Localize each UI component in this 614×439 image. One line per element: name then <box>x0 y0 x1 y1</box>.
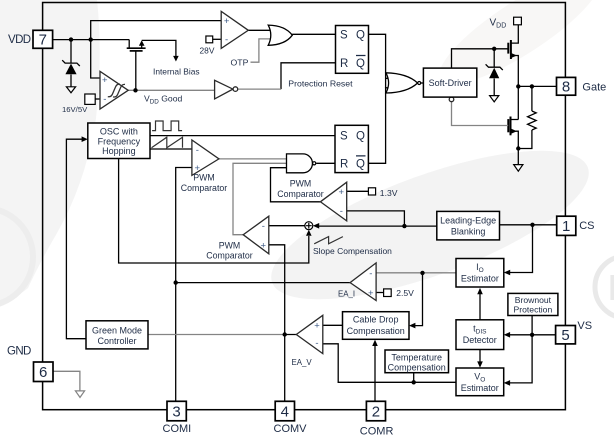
svg-text:-: - <box>262 221 265 232</box>
svg-text:VS: VS <box>577 320 592 332</box>
svg-text:3: 3 <box>172 403 180 420</box>
svg-text:1.3V: 1.3V <box>380 188 398 198</box>
svg-text:Gate: Gate <box>582 81 606 93</box>
svg-text:+: + <box>195 163 201 174</box>
svg-text:Q: Q <box>356 58 365 70</box>
svg-text:PWM: PWM <box>219 240 241 250</box>
svg-text:Leading-Edge: Leading-Edge <box>440 216 496 226</box>
svg-text:Estimator: Estimator <box>461 274 499 284</box>
svg-text:+: + <box>314 320 320 331</box>
svg-text:6: 6 <box>39 364 47 381</box>
svg-text:4: 4 <box>281 403 289 420</box>
svg-text:2: 2 <box>372 403 380 420</box>
svg-text:R: R <box>608 267 614 308</box>
svg-text:Internal Bias: Internal Bias <box>153 67 200 77</box>
svg-text:VDD: VDD <box>8 34 31 46</box>
svg-text:Comparator: Comparator <box>181 183 228 193</box>
svg-text:Green Mode: Green Mode <box>92 326 142 336</box>
svg-text:16V/5V: 16V/5V <box>62 105 88 114</box>
svg-text:Cable Drop: Cable Drop <box>353 314 399 324</box>
svg-text:+: + <box>224 16 230 27</box>
svg-text:8: 8 <box>562 79 570 96</box>
svg-text:PWM: PWM <box>193 173 215 183</box>
svg-text:-: - <box>196 145 199 156</box>
svg-text:+: + <box>339 187 345 198</box>
svg-text:-: - <box>103 94 106 105</box>
svg-text:-: - <box>315 338 318 349</box>
svg-text:+: + <box>368 288 374 299</box>
svg-text:GND: GND <box>7 345 31 357</box>
svg-text:Q: Q <box>356 158 365 170</box>
svg-text:-: - <box>369 268 372 279</box>
svg-text:CS: CS <box>579 220 594 232</box>
svg-text:COMV: COMV <box>274 423 308 435</box>
svg-text:EA_V: EA_V <box>292 358 313 367</box>
svg-text:Hopping: Hopping <box>102 146 136 156</box>
svg-text:Comparator: Comparator <box>206 250 253 260</box>
svg-text:Protection: Protection <box>514 305 553 315</box>
svg-text:+: + <box>261 240 267 251</box>
svg-text:COMR: COMR <box>360 426 394 438</box>
svg-text:Detector: Detector <box>463 335 497 345</box>
svg-text:R: R <box>340 58 348 70</box>
svg-text:PWM: PWM <box>290 179 312 189</box>
svg-text:Controller: Controller <box>97 336 136 346</box>
svg-text:+: + <box>102 75 108 86</box>
svg-text:Temperature: Temperature <box>391 352 442 362</box>
svg-text:Slope Compensation: Slope Compensation <box>313 246 392 256</box>
svg-text:-: - <box>340 206 343 217</box>
svg-text:Compensation: Compensation <box>347 326 405 336</box>
svg-text:Estimator: Estimator <box>461 383 499 393</box>
svg-text:-: - <box>225 34 228 45</box>
svg-text:Q: Q <box>356 29 365 41</box>
svg-text:R: R <box>340 158 348 170</box>
svg-text:S: S <box>340 29 348 41</box>
svg-text:7: 7 <box>39 32 47 49</box>
svg-text:COMI: COMI <box>163 423 192 435</box>
svg-text:5: 5 <box>561 327 569 344</box>
svg-text:Blanking: Blanking <box>451 226 486 236</box>
svg-text:OTP: OTP <box>231 57 249 67</box>
svg-text:Compensation: Compensation <box>388 362 446 372</box>
svg-text:28V: 28V <box>200 46 215 56</box>
svg-text:OSC with: OSC with <box>100 127 138 137</box>
svg-text:Protection Reset: Protection Reset <box>288 79 353 89</box>
svg-text:Frequency: Frequency <box>98 136 141 146</box>
svg-text:1: 1 <box>562 218 570 235</box>
svg-text:Q: Q <box>356 131 365 143</box>
svg-text:EA_I: EA_I <box>338 290 355 299</box>
svg-text:S: S <box>340 131 348 143</box>
svg-text:2.5V: 2.5V <box>396 288 414 298</box>
svg-text:Soft-Driver: Soft-Driver <box>429 78 472 88</box>
svg-text:Comparator: Comparator <box>277 189 324 199</box>
